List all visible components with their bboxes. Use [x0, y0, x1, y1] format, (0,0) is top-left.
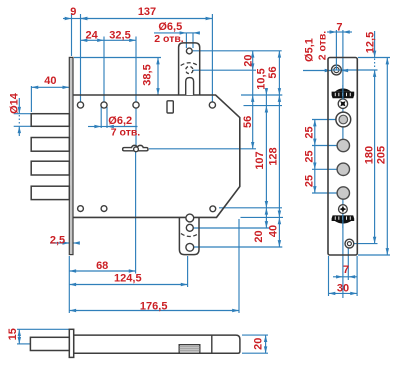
svg-text:24: 24 — [85, 29, 98, 41]
dim 56 (tab-top) + 128 + 40 chained — [278, 51, 280, 95]
tab dashed circle — [186, 66, 193, 73]
latch divider — [211, 335, 213, 353]
ext plate bottom right — [358, 254, 390, 256]
top screw hole — [332, 65, 342, 75]
bottom tab fill — [179, 217, 199, 254]
body bar — [74, 335, 240, 353]
svg-text:56: 56 — [242, 116, 254, 128]
svg-text:30: 30 — [337, 282, 349, 294]
faceplate flange (bottom view) — [69, 329, 73, 357]
deadbolt 2 — [31, 138, 69, 152]
ext plate edges down — [328, 256, 330, 296]
tab dashed arc — [181, 63, 198, 66]
top tab — [179, 43, 200, 95]
screw hole row top: hole1 — [77, 102, 83, 108]
ext body right edge down — [238, 219, 240, 313]
ext body top right — [241, 94, 282, 96]
phillips screw bottom — [339, 205, 348, 214]
dim o6.5 ext — [185, 33, 187, 48]
right plate fill — [328, 58, 357, 256]
lock body outline — [73, 95, 240, 217]
plate — [328, 58, 357, 256]
bottom tab hole b — [186, 224, 193, 231]
bolt circle 2 — [337, 163, 349, 175]
dim 15 (bottom view) — [17, 328, 69, 330]
bolt circle 1 — [337, 139, 349, 151]
logo bottom (inverted) — [332, 215, 355, 223]
deadbolt 1 — [31, 114, 69, 127]
ext cam center down — [135, 152, 137, 274]
bottom hole row: hole5 — [78, 206, 84, 212]
dim o14 — [14, 113, 32, 115]
dim 40 (bolt) — [30, 86, 32, 112]
svg-text:128: 128 — [268, 147, 280, 165]
ext hole3 up + down to cam — [135, 37, 137, 106]
deadbolt 4 — [31, 186, 69, 199]
dim 25 chain — [314, 120, 316, 146]
ext hole1 up — [80, 14, 82, 105]
hole6 — [101, 206, 107, 212]
cam / key slot — [123, 145, 148, 151]
ext dashed hole right — [193, 69, 256, 71]
ext tab hole2 right — [193, 227, 269, 229]
dim 30 — [329, 292, 358, 294]
svg-text:2 отв.: 2 отв. — [317, 31, 329, 61]
svg-text:Ø5,1: Ø5,1 — [303, 38, 315, 62]
svg-text:15: 15 — [7, 328, 19, 340]
svg-text:Ø14: Ø14 — [9, 92, 21, 114]
svg-text:20: 20 — [253, 230, 265, 242]
logo top — [332, 88, 355, 98]
ext faceplate plane up — [71, 14, 73, 56]
slot rectangle — [167, 101, 173, 113]
corner hole — [209, 102, 215, 108]
svg-text:176,5: 176,5 — [140, 301, 168, 313]
svg-text:7: 7 — [343, 264, 349, 276]
svg-text:9: 9 — [70, 6, 76, 18]
leader over top screw hole — [332, 69, 341, 71]
cylinder hole — [336, 112, 351, 127]
svg-text:68: 68 — [96, 260, 108, 272]
extended deadbolt (bottom view) — [30, 337, 69, 350]
dim 176,5 — [69, 310, 239, 312]
svg-text:56: 56 — [267, 66, 279, 78]
dim o6.2 leader — [100, 107, 102, 128]
svg-text:180: 180 — [364, 146, 376, 164]
dim 7 top — [327, 31, 336, 33]
dim 20 (bottom view) — [242, 334, 268, 336]
dim 38,5 — [157, 58, 159, 96]
svg-text:7: 7 — [336, 21, 342, 33]
dim 10,5 + 107 — [265, 88, 267, 95]
connector segments — [72, 18, 81, 20]
svg-text:2,5: 2,5 — [50, 235, 65, 247]
ext hole2 up — [103, 37, 105, 106]
deadbolt 3 — [31, 161, 69, 175]
dim 24/32,5 line — [81, 39, 105, 41]
dim 12,5 + 180 — [374, 31, 376, 58]
svg-text:205: 205 — [376, 146, 388, 164]
svg-text:10,5: 10,5 — [255, 68, 267, 89]
svg-text:32,5: 32,5 — [109, 30, 130, 42]
ext bottom tab center down — [187, 256, 189, 287]
svg-text:38,5: 38,5 — [142, 64, 154, 85]
svg-text:20: 20 — [243, 54, 255, 66]
hole3 — [133, 102, 139, 108]
top tab fill — [179, 43, 200, 95]
svg-text:Ø6,2: Ø6,2 — [108, 115, 132, 127]
bottom tab — [179, 217, 199, 254]
svg-text:20: 20 — [253, 338, 265, 350]
centerline overlay over logos — [342, 85, 344, 100]
ext bottom holes row right — [219, 207, 282, 209]
bottom tab dashed arc — [181, 234, 199, 237]
svg-text:40: 40 — [267, 225, 279, 237]
svg-text:Ø6,5: Ø6,5 — [158, 21, 182, 33]
tab hole — [186, 48, 192, 54]
dim 205 — [386, 58, 388, 256]
ext tab hole3 right — [194, 246, 283, 248]
bottom tab hole c — [186, 243, 194, 251]
ext bottom hole down — [347, 248, 349, 280]
lock body fill — [73, 95, 240, 217]
bottom tab hole a — [186, 214, 194, 222]
ext bottom hole right — [354, 243, 378, 245]
ext plate top right — [358, 57, 390, 59]
svg-text:25: 25 — [303, 126, 315, 138]
svg-text:2 отв.: 2 отв. — [154, 33, 184, 45]
svg-text:124,5: 124,5 — [114, 273, 142, 285]
svg-text:40: 40 — [44, 75, 56, 87]
phillips screw top — [338, 99, 347, 108]
ext faceplate down — [68, 256, 70, 313]
dim 124,5 — [69, 284, 187, 286]
ext centerline down already, dim 7 bottom — [333, 276, 343, 278]
hole2 — [101, 102, 107, 108]
faceplate strip (main view) — [69, 57, 73, 254]
ext holes row right — [244, 105, 283, 107]
ext corner hole up — [211, 14, 213, 105]
dim o5,1 leader — [303, 70, 332, 72]
ext cam axis right — [149, 148, 256, 150]
dim 20 (tab) + 56 (cam) chained — [252, 51, 254, 70]
svg-text:137: 137 — [138, 6, 156, 18]
dim 20 (strike) — [265, 208, 267, 228]
tab slot — [186, 78, 194, 95]
ext circles left — [312, 119, 336, 121]
svg-text:7 отв.: 7 отв. — [111, 127, 141, 139]
bottom screw hole — [345, 239, 354, 248]
dim 68 — [69, 270, 135, 272]
svg-text:12,5: 12,5 — [365, 32, 377, 53]
dim 2,5 — [50, 242, 69, 244]
svg-text:25: 25 — [303, 150, 315, 162]
dim 9/137 line — [63, 18, 72, 20]
ext faceplate top right — [74, 57, 161, 59]
ext top hole right — [342, 69, 378, 71]
ext top hole up — [335, 30, 337, 64]
svg-text:107: 107 — [254, 151, 266, 169]
svg-text:25: 25 — [303, 175, 315, 187]
bolt circle 3 — [337, 187, 349, 199]
ext body bottom right — [241, 216, 284, 218]
spring hatch block — [179, 345, 200, 354]
centerline — [342, 30, 344, 142]
hole7 — [210, 206, 216, 212]
ext tab hole right — [192, 50, 281, 52]
